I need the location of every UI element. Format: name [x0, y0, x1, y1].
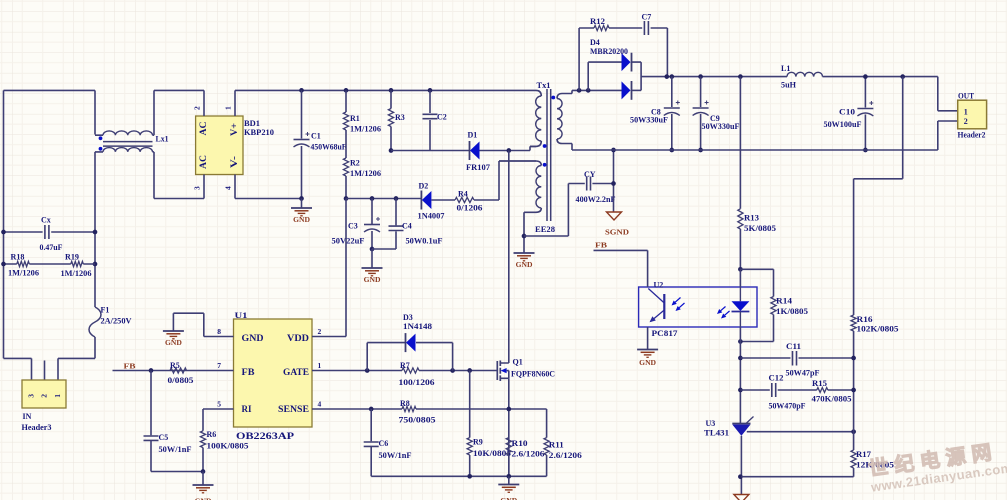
svg-text:100/1206: 100/1206	[399, 378, 435, 387]
svg-text:470K/0805: 470K/0805	[812, 395, 852, 404]
svg-text:FB: FB	[595, 241, 607, 250]
U1 pin 5 wire RI	[203, 409, 234, 431]
svg-text:50W330uF: 50W330uF	[630, 116, 668, 125]
wire secondary top	[572, 89, 622, 91]
Tx1 aux winding	[499, 161, 541, 166]
capacitor C10	[864, 77, 866, 150]
resistor R6	[200, 431, 205, 448]
wire VDD node	[346, 198, 421, 200]
svg-text:IN: IN	[23, 412, 32, 421]
watermark	[867, 440, 1007, 494]
U2 receive light arrows	[675, 298, 680, 303]
svg-text:750/0805: 750/0805	[399, 416, 436, 425]
wire BD1 V- to C1	[235, 198, 302, 200]
wire Lx1 to Cx	[94, 152, 96, 307]
svg-text:1: 1	[964, 108, 968, 117]
wire R14 bottom	[740, 341, 773, 343]
svg-text:100K/0805: 100K/0805	[207, 442, 249, 451]
wire drain	[500, 151, 509, 364]
svg-text:50W0.1uF: 50W0.1uF	[406, 237, 443, 246]
wire sense ground rail	[371, 475, 546, 477]
svg-text:Tx1: Tx1	[537, 81, 551, 90]
BD1 pin 1 stub	[234, 90, 236, 116]
svg-text:C6: C6	[379, 439, 389, 448]
svg-text:R2: R2	[350, 159, 360, 168]
wire mains top loop	[4, 90, 96, 358]
svg-text:R6: R6	[207, 430, 217, 439]
ground below C1	[301, 199, 303, 208]
svg-text:BD1: BD1	[244, 119, 260, 128]
svg-text:D2: D2	[419, 182, 429, 191]
svg-text:FQPF8N60C: FQPF8N60C	[511, 370, 555, 379]
svg-text:2.6/1206: 2.6/1206	[512, 450, 545, 459]
transformer Tx1 core	[547, 89, 551, 221]
wire LED cathode node	[739, 327, 741, 424]
svg-text:VDD: VDD	[287, 334, 309, 344]
resistor R9	[469, 371, 471, 477]
svg-text:50W470pF: 50W470pF	[769, 402, 806, 411]
svg-text:U2: U2	[654, 281, 664, 290]
svg-text:SENSE: SENSE	[278, 405, 309, 415]
inductor L1	[787, 72, 823, 76]
wire output node	[641, 76, 787, 78]
svg-text:450W68uF: 450W68uF	[311, 143, 347, 152]
shunt regulator U3 TL431	[732, 423, 750, 425]
svg-text:102K/0805: 102K/0805	[857, 325, 899, 334]
capacitor CY	[587, 177, 591, 191]
svg-text:L1: L1	[781, 64, 790, 73]
svg-text:50W47pF: 50W47pF	[786, 369, 820, 378]
svg-text:10K/0805: 10K/0805	[473, 449, 511, 458]
svg-text:KBP210: KBP210	[244, 128, 274, 137]
U1 pin 4 wire SENSE	[312, 408, 402, 410]
BD1 pin 2 stub	[203, 90, 205, 116]
svg-text:RI: RI	[242, 405, 252, 415]
svg-text:1: 1	[318, 361, 322, 370]
svg-text:1M/1206: 1M/1206	[350, 125, 381, 134]
svg-text:GND: GND	[639, 358, 656, 367]
svg-text:C7: C7	[642, 13, 652, 22]
svg-text:FB: FB	[242, 368, 256, 378]
wire clamp bottom	[391, 150, 470, 152]
svg-text:GATE: GATE	[283, 368, 309, 378]
capacitor Cx	[4, 231, 96, 233]
resistor R1	[345, 90, 347, 158]
svg-text:0.47uF: 0.47uF	[40, 243, 63, 252]
U2 emit light arrows	[721, 307, 726, 311]
svg-text:GND: GND	[242, 334, 264, 344]
svg-text:5uH: 5uH	[781, 81, 797, 90]
resistor R3	[390, 90, 392, 150]
svg-text:V+: V+	[229, 123, 239, 136]
U1 pin 8 wire to ground	[173, 313, 233, 336]
svg-text:400W2.2nF: 400W2.2nF	[576, 195, 616, 204]
svg-text:1N4007: 1N4007	[418, 212, 445, 221]
svg-text:R19: R19	[65, 253, 79, 262]
svg-text:R9: R9	[473, 438, 483, 447]
svg-text:AC: AC	[198, 155, 208, 169]
svg-text:1: 1	[53, 394, 62, 398]
wire snubber R12 C7	[579, 28, 667, 90]
svg-text:R18: R18	[11, 253, 25, 262]
ground below R6	[202, 472, 204, 485]
svg-text:GND: GND	[516, 260, 533, 269]
ground at opto emitter	[637, 349, 658, 351]
Tx1 secondary polarity dot	[551, 96, 555, 100]
svg-text:50W/1nF: 50W/1nF	[159, 445, 192, 454]
wire left to header pin3	[4, 358, 32, 380]
svg-text:Lx1: Lx1	[156, 135, 169, 144]
svg-text:Q1: Q1	[513, 358, 523, 367]
BD1 pin 3 stub	[203, 175, 205, 199]
svg-text:R1: R1	[350, 114, 360, 123]
wire output bottom bus	[572, 149, 938, 151]
svg-text:U3: U3	[706, 419, 716, 428]
diode D2	[420, 191, 422, 210]
svg-text:MBR20200: MBR20200	[590, 47, 628, 56]
svg-text:R15: R15	[812, 379, 827, 388]
optocoupler U2 PC817 body	[639, 287, 757, 327]
svg-text:2: 2	[193, 106, 202, 110]
inductor Lx1 core	[103, 142, 153, 147]
svg-text:C2: C2	[437, 113, 447, 122]
svg-text:0/0805: 0/0805	[168, 376, 194, 385]
svg-text:5: 5	[217, 400, 221, 409]
svg-text:5K/0805: 5K/0805	[744, 224, 776, 233]
resistor R14	[773, 269, 775, 341]
diode D4 upper	[588, 62, 621, 90]
wire to header2 pin1	[938, 77, 958, 111]
U2 LED	[739, 287, 741, 301]
svg-text:EE28: EE28	[535, 225, 555, 234]
svg-text:GND: GND	[500, 496, 517, 500]
U1 pin 7 wire FB	[113, 370, 234, 372]
svg-text:D4: D4	[590, 38, 600, 47]
resistor R18	[4, 263, 45, 265]
capacitor C1	[301, 90, 303, 198]
svg-text:Header2: Header2	[958, 131, 986, 140]
wire header pin2 stub	[44, 361, 46, 381]
Tx1 aux polarity dot	[543, 163, 547, 167]
svg-text:1K/0805: 1K/0805	[776, 307, 808, 316]
resistor R13	[739, 77, 741, 270]
svg-text:2.6/1206: 2.6/1206	[549, 451, 582, 460]
resistor R19	[44, 263, 95, 265]
svg-text:R13: R13	[744, 214, 759, 223]
capacitor C4	[372, 199, 396, 250]
svg-text:4: 4	[318, 400, 322, 409]
svg-text:4: 4	[224, 186, 233, 190]
svg-text:50W100uF: 50W100uF	[824, 120, 862, 129]
inductor Lx1 top winding	[103, 131, 153, 135]
Lx1 polarity dots	[99, 136, 103, 140]
resistor R17	[851, 450, 856, 468]
transistor Q1	[496, 361, 498, 380]
ground below Q1 source	[508, 476, 510, 484]
wire LED anode	[739, 269, 741, 287]
resistor R11	[546, 409, 548, 476]
wire C5 R6 ground rail	[151, 471, 203, 473]
svg-text:0/1206: 0/1206	[457, 204, 483, 213]
svg-text:R16: R16	[857, 315, 873, 324]
svg-text:SGND: SGND	[605, 228, 630, 237]
svg-text:1N4148: 1N4148	[403, 322, 432, 331]
capacitor C6	[370, 409, 372, 476]
svg-text:Cx: Cx	[41, 216, 51, 225]
svg-text:1M/1206: 1M/1206	[350, 169, 381, 178]
resistor R12	[594, 25, 609, 30]
svg-text:GND: GND	[165, 338, 182, 347]
bridge rectifier BD1 body	[196, 116, 243, 175]
svg-text:OB2263AP: OB2263AP	[236, 432, 294, 442]
svg-text:AC: AC	[198, 122, 208, 136]
svg-text:F1: F1	[101, 306, 110, 315]
wire V+ bus	[235, 89, 529, 91]
svg-text:D3: D3	[403, 313, 413, 322]
svg-text:8: 8	[217, 327, 221, 336]
U1 pin 2 wire VDD	[312, 199, 346, 337]
svg-text:GND: GND	[293, 215, 310, 224]
svg-text:OUT: OUT	[958, 92, 975, 101]
ground below aux winding	[523, 236, 525, 253]
svg-text:GND: GND	[364, 275, 381, 284]
wire TL431 anode	[740, 436, 742, 495]
wire R14 top	[740, 268, 773, 270]
connector OUT Header2	[958, 100, 987, 129]
svg-text:TL431: TL431	[704, 429, 729, 438]
diode D3	[367, 343, 405, 371]
capacitor C7	[644, 21, 648, 35]
svg-text:U1: U1	[235, 311, 248, 320]
svg-text:PC817: PC817	[652, 329, 678, 338]
svg-text:7: 7	[217, 361, 221, 370]
wire CY left	[524, 184, 585, 237]
wire R4 to aux winding	[499, 161, 536, 200]
svg-text:R14: R14	[776, 297, 792, 306]
resistor R5	[170, 368, 187, 373]
fuse F1	[89, 307, 101, 337]
resistor R7	[402, 368, 419, 373]
svg-text:3: 3	[193, 186, 202, 190]
svg-text:R12: R12	[590, 17, 605, 26]
wire source	[508, 378, 510, 476]
wire SGND tap	[613, 150, 615, 212]
U1 pin 1 wire GATE	[312, 370, 402, 372]
svg-text:FB: FB	[124, 362, 136, 371]
svg-text:50W/1nF: 50W/1nF	[379, 451, 412, 460]
U2 phototransistor	[663, 294, 665, 319]
svg-text:50W330uF: 50W330uF	[702, 122, 740, 131]
svg-text:1: 1	[224, 106, 233, 110]
capacitor C9	[700, 77, 702, 150]
Tx1 primary polarity dot	[543, 144, 547, 148]
svg-text:1M/1206: 1M/1206	[8, 269, 39, 278]
capacitor C12	[740, 389, 816, 391]
svg-text:R3: R3	[395, 113, 405, 122]
svg-text:R4: R4	[458, 190, 468, 199]
svg-text:Header3: Header3	[22, 423, 52, 432]
diode D1	[469, 141, 471, 160]
svg-text:R5: R5	[170, 361, 180, 370]
wire Lx1 right vertical	[94, 90, 96, 134]
resistor R2	[345, 176, 347, 199]
wire FB to opto collector	[594, 250, 648, 287]
svg-text:D1: D1	[468, 131, 478, 140]
resistor R4	[432, 199, 500, 201]
svg-text:R17: R17	[856, 450, 871, 459]
capacitor C11	[740, 357, 853, 359]
svg-text:C3: C3	[348, 222, 358, 231]
svg-text:FR107: FR107	[466, 163, 490, 172]
resistor R16	[851, 315, 856, 331]
svg-text:50V22uF: 50V22uF	[332, 237, 365, 246]
svg-text:C11: C11	[786, 342, 801, 351]
svg-text:GND: GND	[195, 497, 212, 500]
svg-text:R10: R10	[512, 439, 528, 448]
svg-text:2A/250V: 2A/250V	[101, 317, 132, 326]
power ground SGND bottom	[734, 495, 749, 500]
svg-text:R7: R7	[400, 361, 410, 370]
capacitor C5	[150, 371, 152, 472]
diode D4 lower	[622, 81, 631, 99]
svg-text:R11: R11	[549, 441, 564, 450]
wire header2 pin2	[938, 121, 958, 150]
resistor R15	[817, 388, 828, 393]
capacitor C2	[429, 90, 431, 150]
wire output sense tap	[854, 77, 903, 315]
resistor R10	[506, 438, 511, 455]
svg-text:2: 2	[40, 394, 49, 398]
svg-text:C5: C5	[159, 433, 169, 442]
connector IN Header3	[22, 380, 66, 408]
svg-text:1M/1206: 1M/1206	[61, 269, 92, 278]
svg-text:V-: V-	[229, 156, 239, 168]
svg-text:C1: C1	[311, 132, 321, 141]
svg-text:C12: C12	[769, 374, 784, 383]
capacitor C8	[671, 77, 673, 150]
ground below C3	[371, 249, 373, 268]
ground at U1 pin8	[163, 330, 184, 332]
power ground SGND top	[607, 212, 622, 220]
svg-text:C10: C10	[839, 108, 855, 117]
inductor Lx1 bottom winding	[103, 148, 153, 152]
BD1 pin 4 stub	[234, 175, 236, 199]
svg-text:2: 2	[964, 117, 968, 126]
svg-text:CY: CY	[584, 170, 596, 179]
capacitor C3	[371, 199, 373, 250]
svg-text:2: 2	[318, 327, 322, 336]
Tx1 secondary winding	[557, 90, 572, 98]
svg-text:R8: R8	[400, 399, 410, 408]
IC U1 OB2263AP body	[234, 319, 313, 427]
Tx1 primary winding	[529, 90, 541, 96]
wire F1 to header	[58, 337, 95, 380]
svg-text:C4: C4	[402, 222, 412, 231]
resistor R8	[402, 406, 416, 411]
wire opto emitter	[647, 327, 649, 349]
svg-text:3: 3	[27, 394, 36, 398]
